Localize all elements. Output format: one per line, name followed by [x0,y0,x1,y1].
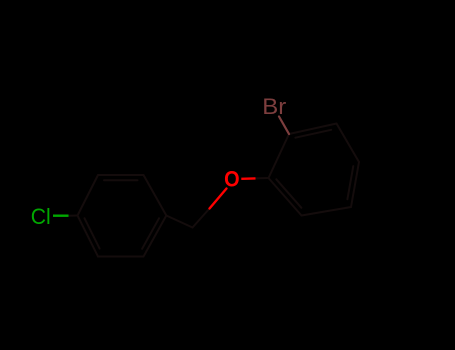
wire ring A edge BL-L [78,216,99,257]
bond Br to ring B (bromine colored) [279,117,289,135]
wire ring A edge TL-TR [98,174,144,176]
wire ring B edge TL-TR [289,124,337,135]
benzene ring A (4-chlorophenyl), outline [78,175,167,257]
wire ring A edge TR-R [144,175,167,216]
bond CH2 to O, carbon half (dark) [193,209,210,228]
svg-text:Cl: Cl [31,204,51,229]
bond O to ring B, oxygen half (red) [241,177,255,180]
svg-text:Br: Br [262,94,286,119]
wire ring A inner double bond left-lower [85,218,100,248]
wire ring B edge L-TL [269,134,290,178]
svg-text:O: O [224,166,240,191]
wire ring A inner double bond right-lower [142,218,159,249]
wire ring A inner double bond top [104,179,138,181]
wire ring B edge BL-L [269,178,302,216]
bond Cl to ring A, carbon half (dark) [69,215,78,217]
wire ring A edge L-TL [78,175,99,216]
bond O to ring B, carbon half (dark) [256,177,269,179]
wire ring B inner double bond left-lower [276,179,301,208]
bond ring A to CH2 [166,216,192,228]
wire ring A edge R-BR [144,216,167,257]
bond CH2 to O, oxygen half (red) [210,189,227,209]
wire ring B edge BR-BL [302,207,352,216]
wire ring B inner double bond right [347,166,353,199]
wire ring B edge TR-R [337,124,360,163]
wire ring B edge R-BR [351,162,359,207]
wire ring A edge BR-BL [98,256,144,258]
benzene ring B (2-bromophenyl), outline [269,124,360,216]
bond Cl to ring A, chlorine half (green) [53,214,69,216]
wire ring B inner double bond top [295,130,331,138]
